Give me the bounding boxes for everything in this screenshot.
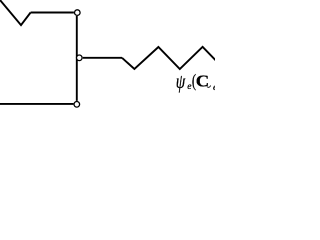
value label psi_e(C_e ... for R2 xyxy=(176,70,218,93)
wire: vertical bus N1 to N3 xyxy=(76,16,78,101)
node N2 (open terminal, middle tap) xyxy=(77,55,83,61)
wire: node N2 to resistor R2 xyxy=(83,57,122,59)
wire: R1 to node N1 xyxy=(31,12,74,14)
wire: bottom rail from left edge to node N3 xyxy=(0,103,73,105)
node N3 (open terminal, bottom junction) xyxy=(74,102,80,108)
svg-text:ψ: ψ xyxy=(176,70,186,92)
node N1 (open terminal, top junction) xyxy=(75,10,81,16)
svg-text:e: e xyxy=(187,82,191,92)
resistor R2 (zigzag, cut off at right edge) xyxy=(122,47,217,69)
svg-text:C: C xyxy=(196,72,209,91)
C bottom terminal curl xyxy=(207,86,211,88)
svg-text:e: e xyxy=(213,83,215,93)
resistor R1 (partial zigzag, top-left, cut off by frame) xyxy=(0,0,31,25)
